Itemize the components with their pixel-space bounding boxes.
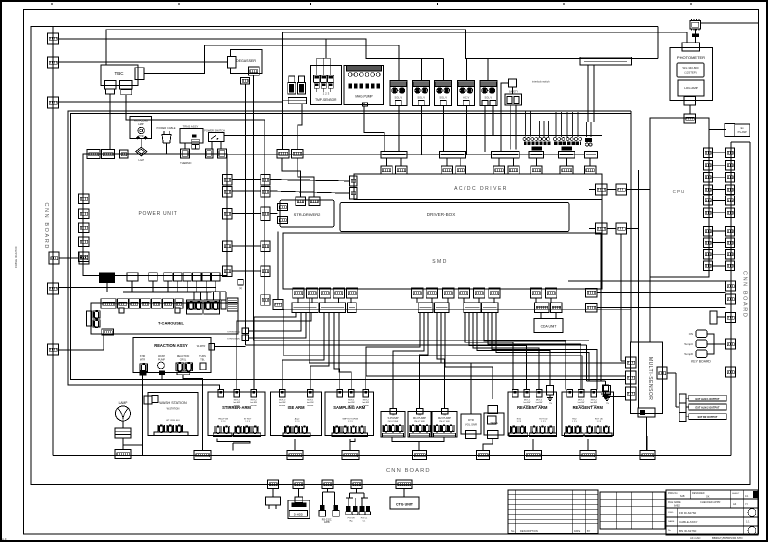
svg-text:PM GT SNR: PM GT SNR xyxy=(439,421,450,423)
svg-text:No: No xyxy=(511,529,515,533)
svg-text:R1 PUMP: R1 PUMP xyxy=(413,416,426,420)
svg-text:PB-UP DN: PB-UP DN xyxy=(218,419,228,421)
wires cda xyxy=(540,313,542,319)
bus wire y345 xyxy=(245,344,586,346)
power unit bottom box 2 xyxy=(127,273,138,281)
multi-sensor connector R1 xyxy=(657,367,667,379)
R2 PUMP base xyxy=(434,433,456,437)
svg-text:BBRG7y5555PL5R.STD: BBRG7y5555PL5R.STD xyxy=(712,536,742,540)
svg-text:THERMO: THERMO xyxy=(180,161,191,165)
CNN right connector 5 xyxy=(726,196,735,206)
SAMPLING ARM top connector 2 xyxy=(349,389,355,397)
wire CPU-CNN 2 xyxy=(713,164,726,166)
wire pu-mid xyxy=(232,213,261,215)
str top connector 1 xyxy=(296,197,306,206)
t-carousel top connector 2 xyxy=(117,299,128,309)
wire label column group 3 xyxy=(586,122,588,137)
wire label terminals group 1 xyxy=(523,138,526,141)
cpu-left pair B2 xyxy=(616,223,627,234)
svg-text:CHECKED APPR: CHECKED APPR xyxy=(700,500,720,504)
svg-text:TBL: TBL xyxy=(200,359,205,362)
svg-text:SOL.V: SOL.V xyxy=(394,95,402,99)
AC inlet bar xyxy=(580,57,632,65)
REAGENT ARM top connector 1 xyxy=(512,389,518,397)
REAGENT ARM top connector 2 xyxy=(578,389,584,397)
svg-text:MTR: MTR xyxy=(140,359,145,362)
connector CN03 on left bus xyxy=(48,97,59,108)
CPU right connector 10 xyxy=(704,261,713,271)
wire trns down xyxy=(184,143,186,149)
svg-text:CNN BOARD: CNN BOARD xyxy=(742,271,748,318)
stamp circle 1 xyxy=(748,509,756,517)
pre-amp inner box xyxy=(678,80,704,96)
t-carousel top connector 6 xyxy=(163,299,174,309)
DRIVER-BOX xyxy=(340,203,569,232)
svg-text:sensor: sensor xyxy=(348,405,354,407)
svg-text:PHOTOMETER: PHOTOMETER xyxy=(677,55,705,60)
svg-text:WT CRSL ELV: WT CRSL ELV xyxy=(166,420,180,422)
photometer top IC box xyxy=(690,20,701,29)
S PUMP top connector xyxy=(390,409,397,415)
power unit left connector 3 xyxy=(79,223,90,233)
small E box with label xyxy=(238,280,244,286)
wire pu-mid xyxy=(232,190,261,192)
svg-text:PUMP: PUMP xyxy=(158,359,165,362)
svg-text:lmt-SW: lmt-SW xyxy=(536,401,543,404)
acdc fuse box 1 xyxy=(381,166,392,174)
acdc input bar 3 xyxy=(492,151,520,158)
TBC connector left xyxy=(104,80,116,89)
power unit right connector 2 xyxy=(223,187,233,198)
svg-text:sensor: sensor xyxy=(279,405,285,407)
valve unit V4 (AC.V) xyxy=(458,80,475,105)
terminal strip 2 xyxy=(554,142,581,145)
wire v202 full xyxy=(202,378,204,383)
bus connector 1 xyxy=(194,451,211,460)
TBC box xyxy=(101,65,138,86)
wire plug down xyxy=(166,143,168,154)
wire multisensor L3 from earth xyxy=(603,396,626,398)
CNN right connector 8 xyxy=(726,238,735,248)
svg-text:interlock switch: interlock switch xyxy=(532,80,550,84)
acdc fuse box 6 xyxy=(508,166,519,174)
power cable plug symbol xyxy=(162,131,171,143)
bus connector 5 xyxy=(477,451,490,460)
revision table xyxy=(508,490,598,534)
svg-text:ON: ON xyxy=(689,332,693,336)
pw top connector 3 xyxy=(120,150,129,158)
left CNN bus wire xyxy=(52,27,54,456)
wire hang1 xyxy=(272,489,274,498)
PHOTOMETER box xyxy=(670,47,713,100)
t-carousel top connector 5 xyxy=(152,299,162,309)
svg-text:SOL.V: SOL.V xyxy=(484,95,492,99)
stamp circle 2 xyxy=(748,527,756,535)
wire label terminals group 2 xyxy=(554,138,557,141)
wire CPU-CNN 7 xyxy=(713,230,726,232)
ISE ARM top connector 2 xyxy=(308,389,314,397)
SMD driver bar 5 xyxy=(434,303,449,313)
STIRRER-ARM box xyxy=(208,392,265,436)
t-carousel pump motor 1 xyxy=(93,310,100,319)
svg-text:FR ID-62760: FR ID-62760 xyxy=(679,511,697,515)
power mid connector 5 xyxy=(261,266,270,277)
wire photometer top xyxy=(695,29,697,33)
wire TBC tab2 down xyxy=(126,95,265,155)
wash station left connector xyxy=(144,396,152,404)
SMD bottom connector 3 xyxy=(320,288,331,298)
bundle right bars to reagent arm 2 xyxy=(484,313,566,390)
photometer inline bar xyxy=(692,34,699,38)
wire earth xyxy=(605,381,607,385)
temp sensor element 2 xyxy=(321,75,327,82)
MAG.PUMP terminal bar xyxy=(347,66,382,72)
svg-text:POWER CABLE: POWER CABLE xyxy=(156,126,175,130)
wire lgp xyxy=(140,138,142,147)
pw top connector 1 xyxy=(87,150,100,159)
thermo connector 2 xyxy=(192,144,200,149)
svg-text:ST ROT: ST ROT xyxy=(244,419,252,421)
wire lamp xyxy=(122,421,124,428)
power switch connector 1 xyxy=(205,149,213,158)
svg-text:POWER UNIT: POWER UNIT xyxy=(139,211,178,217)
wire ctg xyxy=(403,489,405,498)
R1 PUMP top connector xyxy=(417,409,424,415)
ISE ARM box xyxy=(271,392,322,436)
syringe connector 2 xyxy=(242,335,249,341)
acdc fuse box 8 xyxy=(560,166,573,174)
t-carousel stubs xyxy=(119,308,124,313)
interlock switch square xyxy=(509,79,517,87)
svg-text:EXT BZ OUTPUT: EXT BZ OUTPUT xyxy=(698,416,718,419)
wire TBC up xyxy=(105,30,107,65)
svg-text:T-CAROUSEL: T-CAROUSEL xyxy=(158,321,185,326)
dil inner xyxy=(466,431,477,439)
svg-text:PS-AMP: PS-AMP xyxy=(738,131,748,134)
TEMP-SENSOR inner wires xyxy=(316,58,318,75)
SAMPLING ARM top connector 1 xyxy=(337,389,343,397)
connector CN01 on left bus xyxy=(48,33,59,44)
power unit bottom dark box xyxy=(100,273,115,283)
hang4 plug b2 xyxy=(366,506,370,512)
power mid connector 4 xyxy=(261,241,270,252)
wire low-a xyxy=(597,292,726,294)
svg-text:KEY BOARD: KEY BOARD xyxy=(691,360,711,364)
cpu lower-left connector a xyxy=(586,289,598,298)
CNN lower right connector 3 xyxy=(726,313,736,323)
CPU box xyxy=(650,118,709,277)
lamp circle xyxy=(116,406,131,421)
wire CPU-CNN 1 xyxy=(713,152,726,154)
svg-text:SOL.V: SOL.V xyxy=(417,95,425,99)
wire power switch right xyxy=(224,135,602,137)
power unit right connector 4 xyxy=(223,241,233,252)
svg-text:VOL SNR: VOL SNR xyxy=(465,423,477,427)
REAGENT ARM box xyxy=(508,392,557,436)
ground symbol reagent1 xyxy=(549,395,551,398)
floppy unit box xyxy=(288,500,310,518)
feed connector B xyxy=(292,149,304,158)
wire label column group 2 xyxy=(555,112,557,137)
t-carousel top connector 4 xyxy=(141,299,151,309)
svg-text:PG SH: PG SH xyxy=(348,518,355,520)
svg-text:SOL.V: SOL.V xyxy=(439,95,447,99)
reaction stir conn xyxy=(140,371,147,376)
thermo connector xyxy=(181,149,190,158)
wire pu bottom bus xyxy=(123,291,212,293)
SMD bottom connector 2 xyxy=(307,288,318,298)
SMD bottom connector 12 xyxy=(531,288,542,298)
S PUMP base xyxy=(383,433,404,437)
CNN right connector 9 xyxy=(726,250,735,260)
SMD driver bar 9 xyxy=(551,303,563,313)
svg-text:PM GT SNR: PM GT SNR xyxy=(388,421,399,423)
svg-text:AC/DC DRIVER: AC/DC DRIVER xyxy=(454,186,508,192)
SMD bottom connector 10 xyxy=(474,288,485,298)
power mid connector 6 xyxy=(261,295,270,306)
svg-text:lmt-SW: lmt-SW xyxy=(348,401,355,404)
svg-text:lmt-SW: lmt-SW xyxy=(307,401,314,404)
power unit left connector 2 xyxy=(79,209,90,219)
pw top connector 2 xyxy=(102,150,115,159)
svg-text:W/L:340-800: W/L:340-800 xyxy=(682,66,698,70)
wire CPU-CNN 8 xyxy=(713,242,726,244)
SMD driver bar 8 xyxy=(535,303,550,313)
CPU right connector 9 xyxy=(704,250,713,260)
wire acdc right to smd xyxy=(601,199,603,233)
t-carousel top connector 3 xyxy=(129,299,139,309)
svg-text:6AB: 6AB xyxy=(680,495,685,498)
svg-text:lmt-SW: lmt-SW xyxy=(233,401,240,404)
wire multisensor down xyxy=(646,417,648,450)
tall connector reagent1 xyxy=(546,386,553,396)
cpu-left pair A2 xyxy=(616,184,627,195)
wires pair to cpu xyxy=(627,189,651,191)
svg-text:MAG.PUMP: MAG.PUMP xyxy=(355,95,372,99)
wire rectA top right corner down xyxy=(657,27,659,59)
power unit bottom small boxes xyxy=(149,273,157,281)
CTG bus connector xyxy=(396,480,412,489)
hang4 plug a1 xyxy=(346,506,351,512)
power mid connector 1 xyxy=(261,175,270,186)
t-carousel motor unit 2 xyxy=(205,301,212,310)
SAMPLING ARM top connector 3 xyxy=(363,389,369,397)
svg-text:PG CL: PG CL xyxy=(361,518,368,520)
svg-text:SYRINGE(S): SYRINGE(S) xyxy=(227,332,240,334)
trns top connector xyxy=(488,406,498,414)
wire low-b xyxy=(597,307,726,309)
wire CN04 xyxy=(59,287,217,289)
wires pu bottom drops xyxy=(106,281,108,292)
wire label column group 1a xyxy=(525,111,527,137)
acdc input bar 5 xyxy=(558,151,574,158)
acdc fuse box 7 xyxy=(531,166,542,174)
wires acdc bar-fuse xyxy=(386,158,388,166)
reaction right connector xyxy=(209,344,215,351)
CNN BOARD boundary rect xyxy=(31,27,750,485)
CPU right connector 5 xyxy=(704,196,713,206)
svg-text:LGP: LGP xyxy=(138,158,144,162)
svg-text:sensor: sensor xyxy=(363,405,369,407)
svg-text:CNN BOARD: CNN BOARD xyxy=(43,203,49,250)
bus connector 4 xyxy=(413,451,427,460)
CNN lower right connector 5 xyxy=(726,367,736,377)
STIRRER-ARM top connector 2 xyxy=(234,389,240,397)
wire carousel to bus1 xyxy=(183,375,203,451)
SMD bottom connector 5 xyxy=(347,288,358,298)
CPU right connector 6 xyxy=(704,208,713,218)
long net to multi-sensor L2 xyxy=(366,347,626,376)
str left connector 1 xyxy=(278,204,288,211)
hang connector 4 xyxy=(351,480,362,489)
wire wash pump down xyxy=(161,375,163,380)
svg-text:1:1: 1:1 xyxy=(746,520,750,524)
wire W32 to photometer xyxy=(283,32,688,43)
CTG UNIT box xyxy=(390,497,419,509)
t-carousel top connector 7 xyxy=(175,299,183,309)
t-carousel thin element xyxy=(221,300,226,309)
main bottom bus wire xyxy=(53,455,731,457)
multi-sensor bottom bar xyxy=(638,408,655,417)
STR-DRIVER2 box xyxy=(280,200,334,227)
t-carousel top connector 1 xyxy=(101,299,116,309)
power mid connector 2 xyxy=(261,187,270,198)
multi-sensor connector L1 xyxy=(626,357,637,368)
wires smd conn to bars xyxy=(297,298,299,303)
svg-text:DRIVER-BOX: DRIVER-BOX xyxy=(427,212,456,217)
temp sensor element 3 xyxy=(328,75,334,82)
acdc fuse box 2 xyxy=(396,166,407,174)
svg-text:SMD: SMD xyxy=(432,259,448,265)
svg-text:TMP-SENSOR: TMP-SENSOR xyxy=(315,98,337,102)
wash station base bar xyxy=(154,432,188,435)
TBC side connector xyxy=(135,68,144,80)
reaction carousel bar xyxy=(177,372,190,375)
svg-text:D-HDD: D-HDD xyxy=(294,512,303,516)
SMD bottom connector 8 xyxy=(443,288,454,298)
plug 3b xyxy=(334,505,339,511)
str left connector 2 xyxy=(278,217,288,224)
wire CPU-CNN 5 xyxy=(713,199,726,201)
terminal nubs to bars xyxy=(532,147,543,151)
reaction turn tbl box xyxy=(200,363,206,370)
svg-text:AC.V: AC.V xyxy=(463,95,469,99)
bundle left bars to sampling arm xyxy=(334,313,340,390)
SMD driver bar 2 xyxy=(320,303,346,313)
svg-text:PM GT SNR: PM GT SNR xyxy=(414,421,425,423)
svg-text:OK: OK xyxy=(706,496,710,499)
key TempUp xyxy=(696,340,707,348)
wires arms to bus xyxy=(232,443,234,451)
svg-text:EXT ALM 2 OUTPUT: EXT ALM 2 OUTPUT xyxy=(696,407,720,410)
svg-text:SMP ROT UPDN: SMP ROT UPDN xyxy=(342,419,358,421)
hang connector 3 xyxy=(322,480,333,489)
bus connector 7 xyxy=(580,451,596,460)
photometer bottom connector xyxy=(684,97,696,106)
svg-text:R2 PUMP: R2 PUMP xyxy=(438,416,451,420)
wire bundle ends to earth xyxy=(586,345,588,381)
SMD driver bar 1 xyxy=(292,303,318,313)
wires from inlet bar xyxy=(587,65,589,122)
S PUMP box xyxy=(381,412,405,438)
SMD bottom connector 1 xyxy=(293,288,304,298)
trns sub bar xyxy=(192,139,200,144)
svg-text:CTG UNIT: CTG UNIT xyxy=(396,503,414,507)
key ON xyxy=(696,330,707,338)
svg-text:NAME: NAME xyxy=(668,520,675,523)
external output bar 2 xyxy=(689,404,727,410)
svg-text:DEGASSER: DEGASSER xyxy=(236,59,256,63)
mag pump terminal 3 xyxy=(360,73,364,77)
terminal strip 1 xyxy=(524,142,551,145)
TEMP-SENSOR box xyxy=(310,66,341,105)
CPU right connector 2 xyxy=(704,161,713,171)
wire keypad conn xyxy=(717,316,726,318)
right CNN channel top xyxy=(731,141,750,143)
SMD box xyxy=(283,233,602,289)
right CNN channel bus xyxy=(730,142,732,456)
CPU right connector 7 xyxy=(704,226,713,236)
CNN right connector 10 xyxy=(726,261,735,271)
acdc input bar 6 xyxy=(584,151,597,158)
REAGENT ARM top connector 2 xyxy=(524,389,530,397)
bus connector 6 xyxy=(525,451,542,460)
wires pu bus to t-carousel motors xyxy=(193,292,195,300)
syringe connector 1 xyxy=(242,328,249,334)
svg-text:DWG No: DWG No xyxy=(668,492,678,495)
tall connector reagent2 xyxy=(603,386,610,396)
wire mag pump bottom xyxy=(363,103,365,105)
CDA UNIT box xyxy=(534,319,563,333)
multi-sensor connector L3 xyxy=(626,387,637,400)
bundle left bars to stirrer arm xyxy=(254,313,296,390)
external output bar 1 xyxy=(689,395,727,401)
svg-text:LMP: LMP xyxy=(138,123,143,126)
wire pu-mid xyxy=(232,179,261,181)
rotated connector near keypad xyxy=(710,311,717,324)
svg-text:(x): (x) xyxy=(239,286,242,290)
hang connector 1 xyxy=(268,480,279,489)
wash station motors xyxy=(158,425,165,433)
svg-text:sensor: sensor xyxy=(536,405,542,407)
wire CPU-CNN 4 xyxy=(713,189,726,191)
wire hang3 xyxy=(327,489,329,493)
wire hang4 xyxy=(356,489,358,494)
acdc fuse box 9 xyxy=(584,166,595,174)
anti-cond diamonds xyxy=(136,136,140,140)
SMD bottom connector 13 xyxy=(546,288,557,298)
power unit right connector 5 xyxy=(223,266,233,277)
wires power switch xyxy=(211,141,213,149)
svg-text:TempU: TempU xyxy=(684,342,693,346)
svg-text:POWER SWITCH: POWER SWITCH xyxy=(204,129,225,133)
multi-sensor connector L2 xyxy=(626,371,637,384)
MAG.PUMP box xyxy=(344,66,383,105)
R2 PUMP top connector xyxy=(442,409,449,415)
valve unit V1 (SOL.V) xyxy=(390,80,407,105)
SAMPLING ARM box xyxy=(325,392,374,436)
earth sensor symbol xyxy=(603,385,609,391)
mag pump terminal 4 xyxy=(365,73,369,77)
t-carousel pump motor 2 xyxy=(93,319,100,328)
bus connector 8 xyxy=(640,451,655,460)
trns inner xyxy=(488,416,497,424)
DEGASSER left connector xyxy=(228,57,236,69)
svg-text:S PUMP: S PUMP xyxy=(387,416,398,420)
wire CN03 xyxy=(59,101,283,103)
photometer lower connector xyxy=(684,114,696,123)
valve unit V3 (SOL.V) xyxy=(435,80,452,105)
